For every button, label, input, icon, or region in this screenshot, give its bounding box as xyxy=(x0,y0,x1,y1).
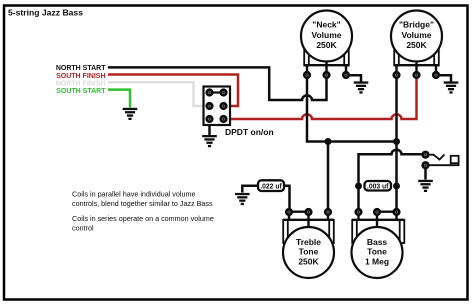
svg-text:Coils in series operate on a c: Coils in series operate on a common volu… xyxy=(72,214,214,223)
svg-text:Tone: Tone xyxy=(299,247,319,257)
svg-text:Coils in parallel have individ: Coils in parallel have individual volume xyxy=(72,189,195,198)
svg-text:NORTH START: NORTH START xyxy=(56,65,106,72)
svg-text:250K: 250K xyxy=(406,40,427,50)
svg-text:Treble: Treble xyxy=(296,237,321,247)
svg-text:Volume: Volume xyxy=(401,30,431,40)
svg-text:250K: 250K xyxy=(298,256,319,266)
svg-text:Tone: Tone xyxy=(367,247,387,257)
svg-text:5-string Jazz Bass: 5-string Jazz Bass xyxy=(8,8,83,18)
svg-text:NORTH FINISH: NORTH FINISH xyxy=(56,80,106,87)
svg-text:"Bridge": "Bridge" xyxy=(399,20,434,30)
svg-text:SOUTH START: SOUTH START xyxy=(56,88,106,95)
svg-text:SOUTH FINISH: SOUTH FINISH xyxy=(56,73,105,80)
svg-text:.003 uf: .003 uf xyxy=(367,181,389,190)
svg-text:.022 uf: .022 uf xyxy=(260,181,282,190)
svg-text:Bass: Bass xyxy=(367,237,388,247)
svg-text:controls, blend together simil: controls, blend together similar to Jazz… xyxy=(72,199,213,208)
svg-text:Volume: Volume xyxy=(311,30,341,40)
svg-text:250K: 250K xyxy=(316,40,337,50)
svg-text:control: control xyxy=(72,224,94,233)
svg-text:"Neck": "Neck" xyxy=(312,20,340,30)
svg-text:DPDT on/on: DPDT on/on xyxy=(225,127,274,137)
svg-text:1 Meg: 1 Meg xyxy=(365,256,389,266)
